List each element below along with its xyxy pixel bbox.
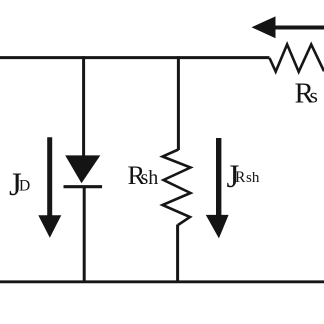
resistor Rs zigzag	[270, 44, 324, 71]
svg-text:R: R	[235, 169, 246, 186]
current arrow at Rs: shaft	[272, 26, 324, 30]
current arrow J_D: shaft	[47, 137, 52, 216]
current arrow at Rs: head	[252, 16, 276, 38]
current arrow J_Rsh: shaft	[216, 138, 221, 215]
wire top bus (left edge to Rs)	[0, 56, 270, 59]
diode D anode triangle	[65, 155, 100, 183]
diode D cathode bar	[64, 185, 103, 188]
resistor Rsh zigzag	[163, 150, 191, 226]
wire bottom bus (full width)	[0, 280, 324, 283]
wire Rsh branch top (bus to Rsh)	[177, 56, 180, 150]
svg-text:D: D	[19, 178, 30, 195]
svg-text:s: s	[310, 83, 318, 107]
svg-text:sh: sh	[141, 167, 159, 189]
wire diode branch top (bus to diode)	[82, 56, 85, 156]
current arrow J_D: head	[38, 215, 61, 237]
wire Rsh to bottom bus	[176, 225, 179, 284]
svg-text:sh: sh	[246, 170, 260, 186]
current arrow J_Rsh: head	[206, 215, 229, 239]
wire diode to bottom bus	[83, 187, 86, 283]
